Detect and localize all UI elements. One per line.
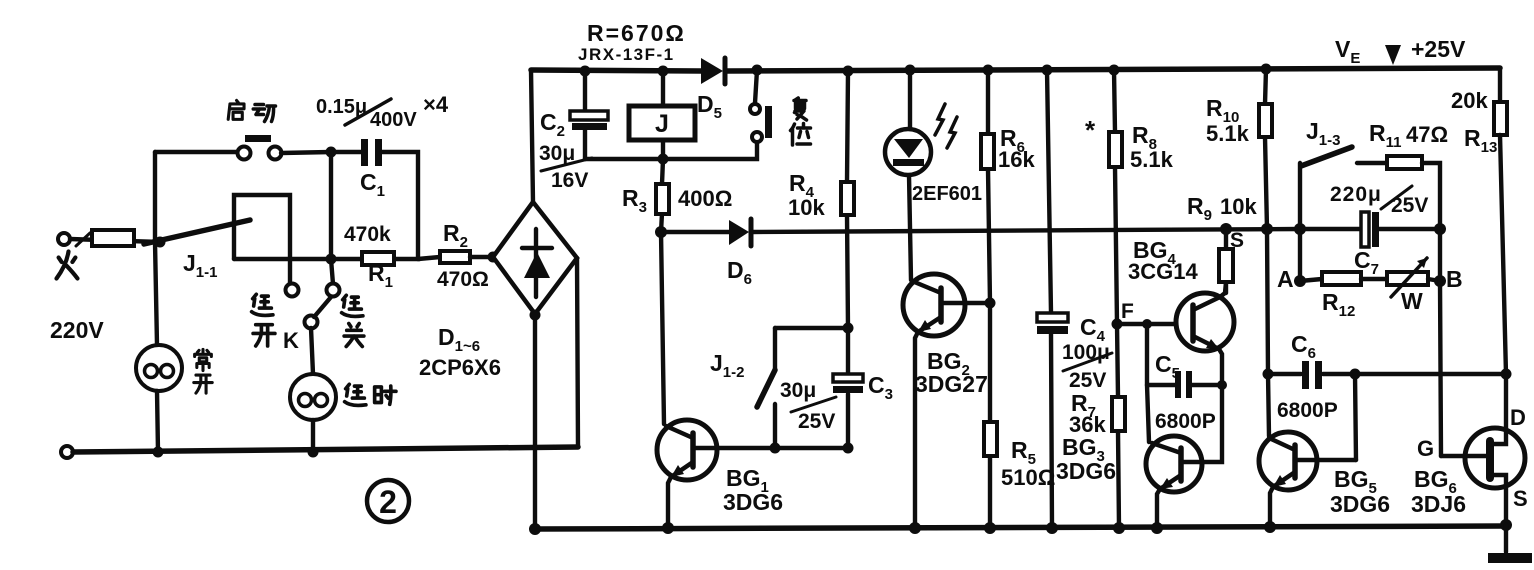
- svg-text:F: F: [1121, 300, 1134, 323]
- node C6 left: [1263, 369, 1274, 380]
- wire W to B: [1428, 279, 1440, 281]
- wire F node to BG4 base: [1117, 322, 1193, 326]
- wire C1 right side down: [382, 152, 418, 259]
- svg-text:3DJ6: 3DJ6: [1411, 491, 1466, 517]
- relay contact bracket J1-1: [234, 195, 290, 284]
- svg-text:+25V: +25V: [1411, 36, 1466, 62]
- node rail R6: [983, 65, 994, 76]
- node BG2 emitter bus: [909, 522, 921, 534]
- wire top rail right of D5: [727, 68, 1500, 71]
- wire R10 column down to bus: [1267, 229, 1269, 436]
- svg-text:16V: 16V: [551, 169, 588, 192]
- wire bottom ground bus: [535, 526, 1505, 529]
- node loop left on main line: [1294, 223, 1306, 235]
- pushbutton 复位 reset: [755, 70, 757, 103]
- svg-text:16k: 16k: [998, 147, 1035, 172]
- label circled 2: [367, 480, 409, 522]
- resistor R6 16k: [988, 70, 990, 303]
- node BG3 emitter bus: [1151, 522, 1163, 534]
- wire bridge right corner down to AC rail: [577, 258, 578, 447]
- node R1 wire junction: [326, 254, 337, 265]
- wire bridge bottom to ground bus: [533, 314, 537, 528]
- start switch 启动 contacts: [155, 150, 237, 154]
- diode D6: [729, 220, 749, 245]
- wire R13 down to drain node: [1500, 135, 1506, 374]
- fuse: [92, 230, 134, 246]
- wire BG3 base vertical: [1147, 324, 1149, 442]
- ground: [1504, 525, 1508, 552]
- svg-text:510Ω: 510Ω: [1001, 465, 1055, 490]
- wire K to lamp: [311, 328, 313, 374]
- resistor R3 400: [661, 159, 663, 232]
- node C7 right: [1434, 223, 1446, 235]
- node C3 bottom: [843, 443, 854, 454]
- node source bus: [1500, 519, 1512, 531]
- resistor R12: [1300, 279, 1322, 281]
- node S junction on main line: [1220, 223, 1232, 235]
- resistor R4 10k: [847, 71, 848, 328]
- capacitor C5 6800P: [1147, 383, 1222, 387]
- wire relay bottom row: [585, 142, 757, 159]
- svg-text:J: J: [655, 110, 669, 138]
- bridge rectifier D1-6: [493, 202, 577, 314]
- svg-text:0.15μ: 0.15μ: [316, 96, 367, 118]
- node relay coil bottom: [658, 154, 669, 165]
- svg-text:G: G: [1417, 436, 1434, 461]
- svg-text:×4: ×4: [423, 92, 449, 117]
- svg-text:20k: 20k: [1451, 88, 1488, 113]
- node BG5 emitter bus: [1264, 521, 1276, 533]
- resistor R1 470k: [362, 252, 394, 265]
- wire left vertical (live to start-switch and lamp): [155, 152, 157, 345]
- switch J1-1 blade: [144, 220, 250, 244]
- capacitor C1: [361, 139, 368, 166]
- svg-text:3DG6: 3DG6: [1056, 458, 1116, 484]
- node BG2 collector: [985, 298, 996, 309]
- transistor BG1 3DG6: [657, 420, 717, 480]
- label 启动: [228, 100, 244, 119]
- svg-text:470k: 470k: [344, 223, 391, 246]
- svg-text:3CG14: 3CG14: [1128, 259, 1198, 284]
- wire C6 right to R13/drain column: [1355, 372, 1506, 376]
- node drain: [1501, 369, 1512, 380]
- svg-text:10k: 10k: [1220, 194, 1257, 219]
- svg-text:S: S: [1513, 486, 1528, 511]
- svg-text:2: 2: [379, 484, 397, 520]
- svg-text:W: W: [1401, 288, 1423, 314]
- svg-text:A: A: [1277, 266, 1294, 292]
- svg-text:6800P: 6800P: [1155, 410, 1216, 433]
- resistor R5 510: [988, 303, 992, 528]
- node R5 bus: [984, 522, 996, 534]
- transistor BG5 3DG6: [1259, 432, 1317, 490]
- lamp 常开: [136, 345, 182, 391]
- node bus left end: [529, 523, 541, 535]
- wire BG2 collector to R6/R5: [964, 301, 990, 305]
- svg-text:B: B: [1446, 266, 1463, 292]
- node bridge left: [488, 252, 499, 263]
- wire AC bottom rail: [73, 447, 578, 452]
- node C4 bus: [1046, 522, 1058, 534]
- svg-text:25V: 25V: [1391, 194, 1428, 217]
- capacitor C3 30u/25V: [846, 328, 850, 448]
- wire main horizontal to D6: [661, 230, 729, 234]
- node rail reset: [752, 65, 763, 76]
- wire BG1 base from main line: [661, 232, 664, 424]
- node lamp1 bottom: [153, 447, 164, 458]
- svg-text:220V: 220V: [50, 317, 104, 343]
- transistor BG3 3DG6: [1146, 436, 1202, 492]
- svg-text:25V: 25V: [1069, 369, 1106, 392]
- capacitor C2 30u/16V: [583, 71, 587, 159]
- switch J1-3: [1301, 147, 1352, 166]
- svg-text:47Ω: 47Ω: [1406, 122, 1448, 147]
- node R10 main line: [1261, 223, 1273, 235]
- node BG3 base tap: [1142, 319, 1152, 329]
- FET BG6 3DJ6: [1465, 428, 1525, 488]
- relay coil J: [661, 71, 665, 159]
- contact 延开: [286, 284, 299, 297]
- wire loop left vertical: [1298, 163, 1302, 281]
- node rail photodiode: [905, 65, 916, 76]
- wire C6 right down to BG5 collector: [1355, 374, 1356, 460]
- svg-text:25V: 25V: [798, 410, 835, 433]
- svg-text:JRX-13F-1: JRX-13F-1: [578, 45, 675, 64]
- wire main horizontal D6 to C7 loop: [751, 229, 1300, 232]
- svg-text:30μ: 30μ: [539, 142, 575, 165]
- svg-text:5.1k: 5.1k: [1130, 147, 1174, 172]
- resistor R13 20k: [1494, 102, 1507, 135]
- resistor R11 47: [1387, 156, 1422, 169]
- resistor R8 5.1k: [1114, 70, 1117, 324]
- terminal neutral: [61, 446, 73, 458]
- terminal live input: [58, 233, 70, 245]
- svg-text:220μ: 220μ: [1330, 183, 1382, 206]
- wire bridge top to +rail: [531, 70, 533, 202]
- wire lamp to bottom rail: [311, 420, 315, 452]
- svg-text:K: K: [283, 328, 299, 353]
- capacitor C6 6800P: [1268, 372, 1355, 376]
- svg-text:*: *: [1085, 115, 1096, 145]
- svg-text:2EF601: 2EF601: [912, 183, 982, 205]
- node C5 right: [1217, 380, 1227, 390]
- transistor BG4 3CG14: [1176, 293, 1234, 351]
- wire tick: [76, 233, 90, 246]
- svg-text:6800P: 6800P: [1277, 399, 1338, 422]
- node live junction: [155, 237, 166, 248]
- capacitor C7 220u/25V: [1300, 227, 1440, 231]
- wire R2 to bridge: [470, 255, 493, 259]
- svg-text:5.1k: 5.1k: [1206, 121, 1250, 146]
- wire BG1 collector row: [716, 446, 848, 450]
- svg-text:400V: 400V: [370, 109, 417, 131]
- resistor R7 36k: [1117, 324, 1119, 528]
- wire live input to switch J1-1 pivot: [70, 239, 160, 242]
- node rail C2: [580, 66, 591, 77]
- node start/K junction: [326, 147, 337, 158]
- wire R11 to loop right vertical: [1422, 163, 1440, 229]
- node R4/C3 top: [843, 323, 854, 334]
- resistor R9 10k: [1224, 229, 1228, 293]
- wire R1 to R2: [418, 257, 440, 259]
- switch K blade: [305, 316, 318, 329]
- node F: [1112, 319, 1123, 330]
- svg-text:R=670Ω: R=670Ω: [587, 20, 686, 46]
- wire top rail left of D5: [531, 70, 701, 71]
- resistor R2 470: [440, 251, 470, 263]
- svg-text:3DG6: 3DG6: [1330, 491, 1390, 517]
- node R3/D6/BG1 junction: [655, 226, 667, 238]
- node J1-2 bottom: [770, 443, 781, 454]
- node rail relay top: [658, 66, 669, 77]
- contact 延关: [327, 284, 340, 297]
- potentiometer W: [1361, 277, 1387, 281]
- node A: [1294, 275, 1306, 287]
- svg-text:D: D: [1510, 405, 1526, 430]
- lamp 延时: [290, 374, 336, 420]
- node rail R4: [843, 66, 854, 77]
- wire lamp to bottom rail: [157, 391, 158, 452]
- svg-text:2CP6X6: 2CP6X6: [419, 355, 501, 380]
- resistor R10 5.1k: [1265, 69, 1267, 229]
- svg-text:3DG6: 3DG6: [723, 489, 783, 515]
- wire R4 bottom to J1-2: [775, 326, 848, 330]
- wire vertical K branch: [331, 152, 333, 284]
- wire bracket bottom to R1: [234, 257, 362, 261]
- node rail C4: [1042, 65, 1053, 76]
- node B: [1434, 275, 1446, 287]
- switch J1-2: [773, 328, 777, 370]
- photodiode 2EF601: [909, 70, 911, 280]
- svg-text:100μ: 100μ: [1062, 341, 1110, 364]
- wire BG3 collector: [1201, 385, 1222, 462]
- wire B down to BG6 gate: [1440, 229, 1441, 456]
- node lamp2 bottom: [308, 447, 319, 458]
- svg-text:30μ: 30μ: [780, 379, 816, 402]
- node BG1 emitter bus: [662, 522, 674, 534]
- label 火 (live): [57, 252, 78, 279]
- wire start switch to C1: [281, 152, 361, 153]
- label 常开: [195, 349, 212, 370]
- svg-text:400Ω: 400Ω: [678, 186, 732, 211]
- svg-text:10k: 10k: [788, 195, 825, 220]
- svg-text:470Ω: 470Ω: [437, 268, 489, 291]
- capacitor C4 100u/25V: [1047, 70, 1052, 528]
- svg-text:3DG27: 3DG27: [915, 371, 988, 397]
- node C6 right: [1350, 369, 1361, 380]
- node rail R8: [1109, 65, 1120, 76]
- transistor BG2 3DG27: [903, 274, 965, 336]
- diode D5 on rail: [701, 58, 723, 84]
- wire rail right end down to R13: [1498, 68, 1502, 102]
- node rail R10: [1261, 64, 1272, 75]
- node R7 bus: [1113, 522, 1125, 534]
